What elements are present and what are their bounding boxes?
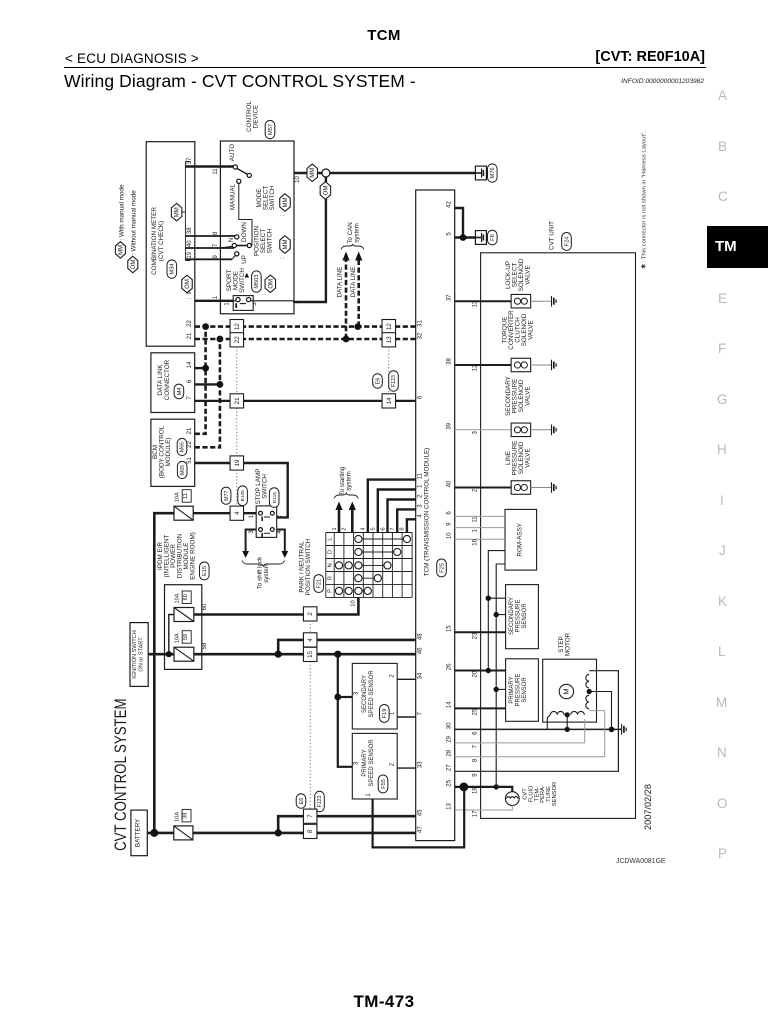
wire TCM29 step motor [455, 719, 585, 743]
DATA LINE arrow 2 to CAN system [355, 252, 362, 327]
MANUAL contact and link [230, 179, 253, 245]
svg-text:39: 39 [447, 422, 453, 429]
svg-text:47: 47 [417, 826, 423, 833]
svg-text:DATA LINE: DATA LINE [337, 267, 344, 298]
svg-text:6: 6 [187, 379, 193, 383]
wire branch to connector4 row [278, 640, 416, 654]
svg-text:E115: E115 [272, 492, 278, 503]
stop lamp switch E115 box [255, 469, 279, 538]
wire TCM30 step motor / ground [455, 724, 627, 735]
wire BCM51 to stop lamp switch [195, 463, 288, 517]
battery box [131, 810, 147, 856]
svg-text:MM: MM [310, 168, 316, 178]
svg-text:MODULE): MODULE) [165, 437, 172, 466]
svg-text:OM: OM [323, 186, 329, 196]
wire TCM42 TCM5 to F6 ground [455, 208, 476, 241]
svg-text:AUTO: AUTO [229, 144, 236, 161]
step motor pin labels 30 29 28 27 6 7 8 9 [447, 722, 479, 777]
svg-text:11: 11 [183, 493, 189, 499]
svg-text:7: 7 [213, 243, 219, 247]
wire TCM10 to ROM [455, 538, 505, 540]
connector 19 box [230, 456, 244, 470]
svg-text:21: 21 [187, 427, 193, 434]
svg-text:SPEED SENSOR: SPEED SENSOR [369, 739, 375, 787]
svg-text:3: 3 [472, 430, 478, 434]
svg-text:11: 11 [213, 168, 219, 175]
combination meter M34 box [146, 142, 195, 347]
svg-text:9: 9 [472, 773, 478, 777]
wire secondary sensor 2 to TCM34 [397, 678, 416, 680]
PNP pin labels top 1 2 4 5 6 7 8 and bottom 10 [332, 527, 406, 607]
fuse 10A 11 [174, 506, 193, 520]
svg-text:10: 10 [295, 176, 301, 183]
wire ignition to fuse58 [148, 653, 174, 656]
wire TCM15 to secondary pressure sensor [455, 631, 506, 633]
svg-text:9: 9 [447, 522, 453, 526]
svg-text:MM: MM [118, 245, 124, 255]
BCM pin labels 21 22 51 [187, 427, 193, 464]
svg-text:VALVE: VALVE [528, 320, 535, 339]
svg-text:M34: M34 [170, 263, 176, 275]
svg-text:F21: F21 [317, 579, 323, 589]
svg-text:5: 5 [447, 232, 453, 236]
svg-text:VALVE: VALVE [525, 448, 532, 467]
margin tab letters [715, 0, 745, 1]
svg-text:M503: M503 [254, 275, 260, 289]
wire battery feed vertical [154, 513, 174, 833]
svg-text:BATTERY: BATTERY [134, 818, 141, 847]
svg-text:F24: F24 [564, 237, 570, 247]
svg-text::: : [280, 214, 286, 216]
svg-text:2: 2 [307, 612, 314, 616]
svg-text:22: 22 [234, 336, 241, 343]
svg-text:CVT UNIT: CVT UNIT [549, 221, 556, 250]
svg-text:7: 7 [472, 744, 478, 748]
ROM/sensor ground bus [494, 564, 506, 790]
IPDM E/R box [165, 585, 202, 670]
svg-text:POSITION SWITCH: POSITION SWITCH [305, 538, 312, 595]
svg-text:14: 14 [386, 397, 393, 404]
wire DLC14 stub [195, 367, 206, 369]
legend MM with manual mode [115, 184, 125, 258]
svg-text:11: 11 [417, 473, 423, 480]
svg-text:SENSOR: SENSOR [552, 782, 558, 806]
svg-text:28: 28 [447, 749, 453, 756]
AUTO switch contacts [229, 144, 251, 178]
svg-text:3: 3 [354, 761, 360, 765]
svg-text:MOTOR: MOTOR [565, 632, 572, 656]
wire meter40 to device pin7 [185, 247, 234, 249]
svg-text:25: 25 [472, 708, 478, 715]
To starting system arrows [335, 502, 356, 533]
svg-text:30: 30 [447, 722, 453, 729]
svg-text::: : [261, 293, 267, 295]
connector 14 box with E6/F123 [373, 371, 399, 408]
svg-text:M77: M77 [224, 491, 230, 501]
svg-text:6: 6 [447, 511, 453, 515]
wire TCM14 to primary pressure sensor [455, 707, 506, 709]
svg-text:M57: M57 [268, 124, 274, 135]
svg-text:F19: F19 [382, 709, 388, 719]
svg-text:13: 13 [447, 803, 453, 810]
svg-text:SWITCH: SWITCH [269, 185, 276, 210]
wire DLC6 stub [195, 383, 220, 385]
legend OM without manual mode [128, 190, 138, 273]
svg-text:VALVE: VALVE [525, 265, 532, 284]
svg-text:10: 10 [351, 600, 357, 606]
data link connector M4 box [151, 353, 195, 413]
svg-text:DOWN: DOWN [241, 222, 248, 242]
svg-text:system: system [353, 223, 360, 243]
svg-text:13: 13 [472, 300, 478, 307]
svg-text:10A: 10A [175, 492, 181, 502]
svg-text:2007/02/28: 2007/02/28 [643, 784, 653, 830]
header rule [64, 67, 706, 69]
svg-text:: With manual mode: : With manual mode [118, 184, 125, 240]
wire meter37 to control device AUTO [185, 165, 233, 167]
shift lock arrows [242, 530, 288, 559]
svg-text:22: 22 [187, 320, 193, 327]
svg-text:37: 37 [187, 157, 193, 164]
dotted harness link E/F chain [309, 621, 311, 813]
svg-text:10A: 10A [175, 633, 181, 643]
DATA LINE labels [337, 267, 357, 298]
svg-text:D: D [328, 550, 334, 554]
svg-text:9: 9 [213, 254, 219, 258]
MM hexagon (top node) [307, 164, 318, 182]
svg-text:PRIMARY: PRIMARY [362, 749, 368, 776]
svg-text:2: 2 [417, 494, 423, 498]
PNP switch contacts [335, 535, 410, 594]
svg-text:10A: 10A [175, 593, 181, 603]
svg-text:F25: F25 [439, 563, 445, 573]
svg-text:31: 31 [417, 320, 423, 327]
wire DLC7 to TCM pin6 (K-line) [195, 400, 416, 402]
svg-text:M66: M66 [180, 442, 186, 452]
svg-text:38: 38 [447, 358, 453, 365]
svg-text:17: 17 [472, 810, 478, 817]
wire battery to fuse38 [147, 832, 174, 835]
pin labels 15 23 26 20 14 25 [447, 625, 479, 716]
ignition switch box [130, 623, 148, 687]
svg-text:F55: F55 [381, 779, 387, 789]
connector pair 4/15 [303, 633, 317, 662]
svg-text:40: 40 [187, 240, 193, 247]
solenoid valve row pin 39 [447, 375, 556, 436]
step motor winding B [586, 674, 612, 729]
CAN pin labels 22 21 31 32 [187, 320, 423, 340]
svg-text:5: 5 [371, 527, 377, 530]
svg-text:M4: M4 [177, 387, 183, 396]
svg-text:4: 4 [234, 511, 241, 515]
svg-text:SWITCH: SWITCH [267, 228, 274, 253]
svg-text:✱ : This connector is not show: ✱ : This connector is not shown in "Harn… [641, 131, 648, 269]
svg-text:45: 45 [417, 809, 423, 816]
wire TCM6 to ROM [455, 515, 505, 517]
svg-text:CVT CONTROL SYSTEM: CVT CONTROL SYSTEM [111, 698, 130, 850]
park/neutral position switch grid F21 [326, 533, 412, 598]
svg-text:23: 23 [472, 632, 478, 639]
svg-text:7: 7 [307, 814, 314, 818]
svg-text:1: 1 [332, 527, 338, 530]
svg-text:32: 32 [417, 332, 423, 339]
svg-text:1: 1 [417, 484, 423, 488]
svg-text:DEVICE: DEVICE [252, 105, 259, 128]
svg-text:1: 1 [225, 302, 231, 306]
CVT UNIT F24 box [481, 221, 636, 819]
wire sensor supply branch [334, 651, 352, 767]
junction dot battery [150, 829, 158, 837]
IPDM E/R box label E15 [157, 532, 209, 580]
svg-text:11: 11 [472, 516, 478, 523]
svg-text:48: 48 [417, 633, 423, 640]
wire fuse11 to stop lamp switch [193, 512, 256, 514]
svg-text:3: 3 [417, 504, 423, 508]
svg-text:N: N [328, 563, 334, 567]
svg-text:F123: F123 [317, 795, 323, 807]
wire TCM9 to ROM [455, 527, 505, 529]
position select switch contacts N DOWN UP [220, 222, 251, 264]
svg-text:E105: E105 [240, 490, 246, 502]
pin labels TCM 6 9 10 CVT 11 1 16 [447, 511, 479, 546]
fuse 10A 58 [174, 647, 194, 661]
svg-text:DATA LINK: DATA LINK [157, 364, 164, 396]
svg-text:20: 20 [472, 670, 478, 677]
svg-text:6: 6 [380, 527, 386, 530]
svg-text:ENGINE ROOM): ENGINE ROOM) [190, 532, 197, 580]
OM hexagon (meter pin 9) [182, 275, 193, 293]
svg-text:8: 8 [400, 527, 406, 530]
svg-text:12: 12 [386, 323, 393, 330]
wire TCM26 to primary pressure sensor [455, 668, 506, 673]
step motor box with M [543, 632, 597, 722]
TCM pin labels 42 5 [447, 201, 453, 236]
svg-text:L: L [328, 537, 334, 541]
svg-text:2: 2 [390, 674, 396, 678]
step motor winding A [547, 711, 584, 729]
TCM transmission control module F25 box [416, 190, 455, 841]
svg-text:system: system [345, 471, 352, 491]
POSITION SELECT SWITCH label and MM hexagon [254, 226, 291, 259]
page header TCM [0, 27, 768, 44]
svg-text:58: 58 [183, 634, 189, 640]
DATA LINE arrow 1 to CAN system [342, 252, 349, 340]
svg-text:37: 37 [447, 294, 453, 301]
To CAN system label with brace [341, 222, 364, 249]
solenoid valve row pin 40 [447, 441, 556, 495]
secondary speed sensor F19 box [352, 663, 397, 729]
wire TCM27 step motor [455, 671, 619, 772]
svg-text:7: 7 [417, 711, 423, 715]
svg-text:(CVT CHECK): (CVT CHECK) [158, 221, 165, 261]
junction dots on CAN lines [202, 323, 361, 342]
TCM pin labels 34 7 33 [417, 672, 423, 768]
svg-text:3: 3 [354, 691, 360, 695]
wire primary sensor 2 to TCM33 [397, 767, 416, 769]
svg-text:13: 13 [386, 336, 393, 343]
wire PNP8 to TCM4 [407, 519, 416, 532]
connector pair 12/13 (F) [382, 320, 396, 347]
svg-text:21: 21 [234, 397, 241, 404]
TM tab [707, 226, 768, 268]
svg-text:8: 8 [213, 231, 219, 235]
wire secondary sensor 1 to TCM7 [397, 716, 416, 718]
svg-text:COMBINATION METER: COMBINATION METER [151, 207, 158, 275]
svg-text:SECONDARY: SECONDARY [509, 597, 515, 635]
ROM/sensor supply bus [486, 551, 506, 671]
PARK/NEUTRAL POSITION SWITCH label F21 [299, 538, 324, 595]
svg-text:DATA LINE: DATA LINE [350, 267, 357, 298]
svg-text:4: 4 [361, 527, 367, 531]
MM hexagon (meter) [171, 203, 182, 221]
MODE SELECT SWITCH label and MM hexagon [256, 185, 290, 216]
control device M57 box [220, 101, 294, 314]
wire PNP6 to TCM2 [388, 500, 416, 533]
svg-text:PRIMARY: PRIMARY [509, 676, 515, 703]
svg-text:21: 21 [187, 332, 193, 339]
solenoid valve row pin 38 [447, 310, 556, 372]
svg-text:OM: OM [185, 279, 191, 289]
svg-text:system: system [263, 563, 270, 583]
svg-text:VALVE: VALVE [525, 386, 532, 405]
infoid [0, 78, 704, 85]
svg-text:40: 40 [447, 480, 453, 487]
svg-text:25: 25 [447, 779, 453, 786]
SPORT MODE SWITCH label M503 OM [226, 268, 276, 296]
TCM pin labels 11 1 2 3 4 [417, 473, 423, 518]
wire meter38 to device pin8 [185, 235, 236, 237]
svg-text:M76: M76 [490, 167, 496, 178]
svg-text:7: 7 [390, 527, 396, 530]
To starting system label with brace [334, 466, 358, 498]
TCM pin labels 48 46 [417, 633, 423, 655]
svg-text:6: 6 [472, 731, 478, 735]
svg-text:4: 4 [417, 514, 423, 518]
svg-text:1: 1 [249, 514, 255, 518]
svg-text:CONNECTOR: CONNECTOR [164, 359, 171, 400]
CVT fluid temperature sensor [505, 782, 558, 806]
svg-text:46: 46 [417, 647, 423, 654]
meter pin labels 37 38 40 19 9 [187, 157, 193, 299]
svg-text:SECONDARY: SECONDARY [362, 675, 368, 713]
svg-text:34: 34 [417, 672, 423, 679]
primary pressure sensor box [506, 659, 539, 722]
connector pair 12/22 (M) [230, 320, 244, 347]
svg-text:8: 8 [307, 829, 314, 833]
svg-text:14: 14 [187, 361, 193, 368]
svg-text:16: 16 [472, 538, 478, 545]
svg-text:1: 1 [472, 528, 478, 532]
wire TCM13 to temp sensor [455, 806, 513, 811]
wire device pin11 row to M76 [294, 172, 475, 174]
svg-text:19: 19 [234, 459, 241, 466]
junction dot battery row [275, 829, 282, 836]
footer page number [0, 992, 768, 1012]
wire TCM25 to temp sensor [455, 787, 513, 792]
svg-text:SWITCH: SWITCH [261, 474, 268, 499]
device pin labels 11 8 7 9 1 3 2 [213, 168, 301, 306]
svg-text:M65: M65 [180, 465, 186, 475]
connector 2 box [303, 607, 317, 621]
svg-text:7: 7 [187, 396, 193, 400]
svg-text:ON or START: ON or START [139, 637, 145, 672]
junction dot pin25 shield [460, 783, 469, 792]
svg-text:SPEED SENSOR: SPEED SENSOR [369, 670, 375, 718]
svg-text:E15: E15 [202, 566, 208, 576]
junction dot ignition bus [166, 651, 172, 657]
wire TCM28 step motor [455, 711, 605, 757]
solenoid valve row pin 37 [447, 258, 556, 308]
svg-text:MM: MM [283, 240, 289, 250]
svg-text:51: 51 [187, 456, 193, 463]
wire branch battery to pin45 row [278, 816, 416, 833]
CAN dashed wire bottom (meter 21 - TCM 32) [195, 338, 416, 341]
stop lamp pin labels 1 2 3 4 [249, 514, 283, 533]
svg-text:4: 4 [307, 638, 314, 642]
svg-text:PRESSURE: PRESSURE [516, 599, 522, 632]
svg-text:26: 26 [447, 663, 453, 670]
svg-text:60: 60 [183, 594, 189, 600]
svg-text:SWITCH: SWITCH [239, 268, 246, 293]
wire meter19 to device pin9 [185, 258, 232, 260]
wire fuse58 to TCM46 row [194, 653, 416, 656]
wire device pin2 to OM node [294, 178, 326, 303]
svg-text:8: 8 [472, 758, 478, 762]
svg-text::: : [187, 297, 193, 299]
wire PNP7 to TCM3 [397, 509, 416, 532]
svg-text:14: 14 [447, 701, 453, 708]
connector 21 box [230, 394, 244, 408]
svg-text:MANUAL: MANUAL [230, 183, 237, 210]
svg-text:IGNITION SWITCH: IGNITION SWITCH [132, 630, 138, 678]
OM hexagon (top node) [320, 182, 331, 200]
svg-text:OM: OM [268, 279, 274, 289]
svg-text:15: 15 [307, 650, 314, 657]
svg-text:F6: F6 [490, 234, 496, 241]
title Wiring Diagram [64, 71, 416, 92]
svg-text:1: 1 [213, 295, 219, 299]
fuse 10A 60 [174, 608, 194, 622]
dashed wire BCM21 up-link [195, 327, 206, 434]
junction dot ignition row [275, 651, 282, 658]
fuse 10A 38 [174, 826, 193, 840]
header ECU DIAGNOSIS [65, 51, 199, 66]
svg-text:PRESSURE: PRESSURE [516, 673, 522, 706]
svg-text:SENSOR: SENSOR [522, 603, 528, 629]
TCM pin labels 45 47 [417, 809, 423, 833]
svg-text:12: 12 [234, 323, 241, 330]
svg-text:F123: F123 [391, 375, 397, 387]
sport mode switch contacts [220, 296, 294, 311]
wire PNP5 to TCM1 [378, 490, 416, 533]
To shift lock system label with brace [242, 556, 285, 589]
svg-text:38: 38 [187, 227, 193, 234]
svg-text:22: 22 [187, 441, 193, 448]
svg-text:27: 27 [447, 764, 453, 771]
svg-text:10A: 10A [174, 812, 180, 822]
svg-text:1: 1 [366, 793, 372, 797]
wire meter9 to sport mode switch [195, 300, 235, 302]
svg-text:UP: UP [241, 255, 248, 264]
svg-text:19: 19 [472, 787, 478, 794]
svg-text:15: 15 [447, 625, 453, 632]
svg-text:MM: MM [283, 198, 289, 208]
svg-text:ROM-ASSY: ROM-ASSY [517, 522, 524, 556]
svg-text:JCDWA0081GE: JCDWA0081GE [616, 858, 666, 865]
BCM body control module box [151, 419, 195, 486]
svg-text:2: 2 [342, 527, 348, 530]
ground connector M76 [475, 164, 497, 182]
